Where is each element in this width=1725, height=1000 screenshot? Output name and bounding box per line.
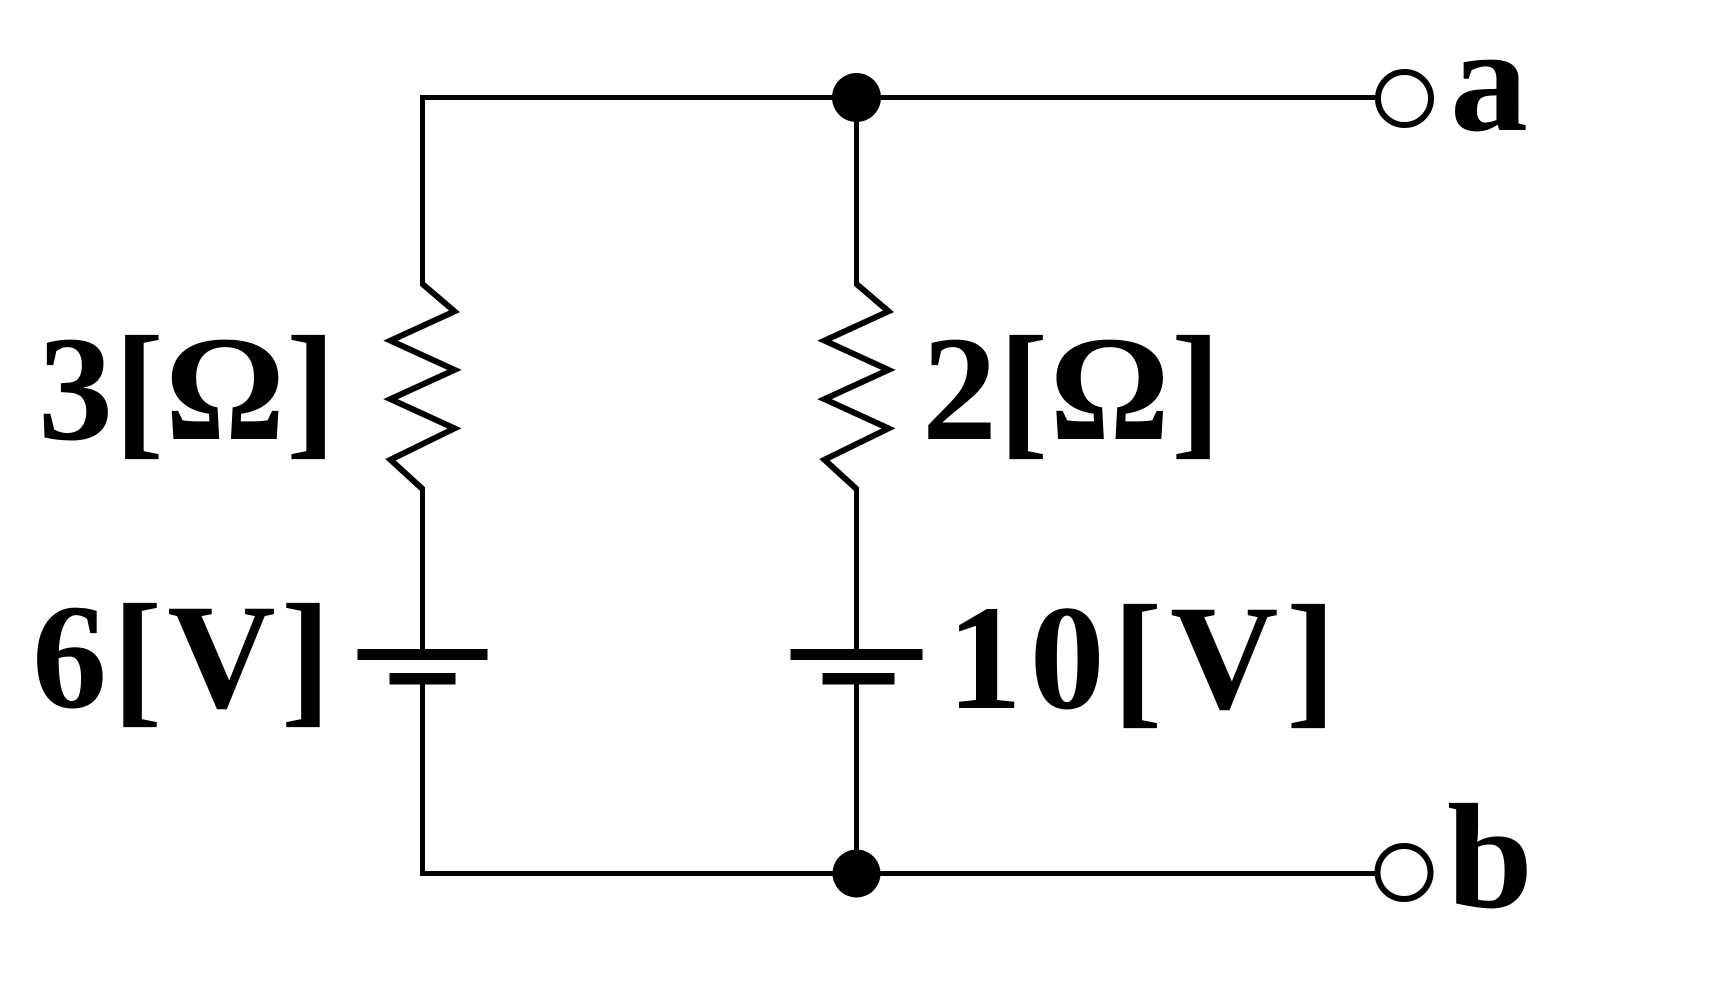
svg-text:2[Ω]: 2[Ω] bbox=[922, 306, 1222, 472]
resistor 3 ohm zigzag bbox=[391, 284, 455, 489]
label a bbox=[1450, 0, 1528, 163]
svg-text:a: a bbox=[1450, 0, 1528, 163]
label 2[ohm] bbox=[922, 306, 1222, 472]
svg-text:3[Ω]: 3[Ω] bbox=[38, 306, 337, 472]
wire bottom horizontal bbox=[423, 871, 1377, 876]
svg-text:6[V]: 6[V] bbox=[32, 574, 336, 740]
wire top horizontal bbox=[423, 95, 1377, 100]
wire right branch middle segment bbox=[854, 487, 859, 649]
battery 6V long plate bbox=[358, 649, 488, 660]
terminal b open circle bbox=[1378, 846, 1431, 899]
label 10[V] bbox=[947, 575, 1344, 741]
svg-text:b: b bbox=[1447, 774, 1533, 940]
wire left branch lower segment bbox=[420, 685, 425, 877]
wire left branch middle segment bbox=[420, 487, 425, 649]
label 6[V] bbox=[32, 574, 336, 740]
resistor 2 ohm zigzag bbox=[825, 284, 889, 489]
node junction top bbox=[832, 73, 881, 122]
label 3[ohm] bbox=[38, 306, 337, 472]
wire left branch upper segment bbox=[420, 95, 425, 286]
label b bbox=[1447, 774, 1533, 940]
svg-text:10[V]: 10[V] bbox=[947, 575, 1344, 741]
wire right branch upper segment bbox=[854, 98, 859, 287]
wire right branch lower segment bbox=[854, 685, 859, 874]
terminal a open circle bbox=[1378, 72, 1431, 125]
battery 10V short plate bbox=[823, 673, 895, 685]
battery 10V long plate bbox=[791, 649, 923, 660]
battery 6V short plate bbox=[390, 673, 456, 685]
node junction bottom bbox=[833, 850, 881, 898]
